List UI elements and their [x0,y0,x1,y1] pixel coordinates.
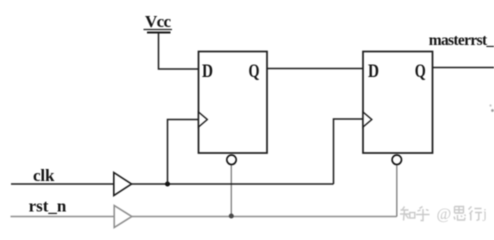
clear bubble U1 [227,155,236,164]
stray mark at right edge [489,104,494,112]
wire rst_n riser to U1 clear bubble [230,165,232,217]
svg-text:rst_n: rst_n [29,197,67,216]
net rst_n wire (horizontal) [11,216,397,218]
watermark 知乎 @思行j (vector strokes) [400,206,487,223]
junction dot on clk at U1 riser [165,182,170,187]
label clk [33,166,55,185]
pin label D (U2) [368,61,379,82]
wire Vcc to U1 D input [159,33,199,70]
pin label D (U1) [202,61,213,82]
知 [400,207,409,221]
buffer on clk [114,173,132,196]
pin label Q (U1) [249,61,260,82]
label rst_n [29,197,67,216]
wire rst_n riser to U2 clear bubble [396,165,398,217]
wire Q2 output masterrst_ [433,67,494,69]
思 [454,207,466,221]
svg-text:masterrst_: masterrst_ [429,32,494,49]
svg-text:@: @ [437,206,452,223]
flip-flop U2 body [363,52,433,154]
label masterrst_ [429,32,494,49]
clock input triangle U1 [199,112,208,127]
wire clk riser to U2 clock input [334,119,364,184]
svg-text:clk: clk [33,166,55,185]
svg-text:D: D [202,61,213,82]
pin label Q (U2) [415,61,426,82]
svg-text:Q: Q [415,61,426,82]
svg-text:j: j [482,207,487,222]
Vcc power symbol [144,12,173,32]
clock input triangle U2 [363,112,372,127]
junction dot on rst_n at U1 riser [229,214,234,219]
flip-flop U1 body [199,52,268,154]
svg-text:Q: Q [249,61,260,82]
buffer on rst_n [114,206,132,228]
svg-text:Vcc: Vcc [145,12,171,31]
net clk wire (horizontal) [11,183,334,185]
乎 [416,207,430,221]
svg-text:D: D [368,61,379,82]
clear bubble U2 [392,155,401,164]
wire Q1 to D2 [267,68,363,70]
wire clk riser to U1 clock input [168,120,199,185]
行 [469,207,483,221]
